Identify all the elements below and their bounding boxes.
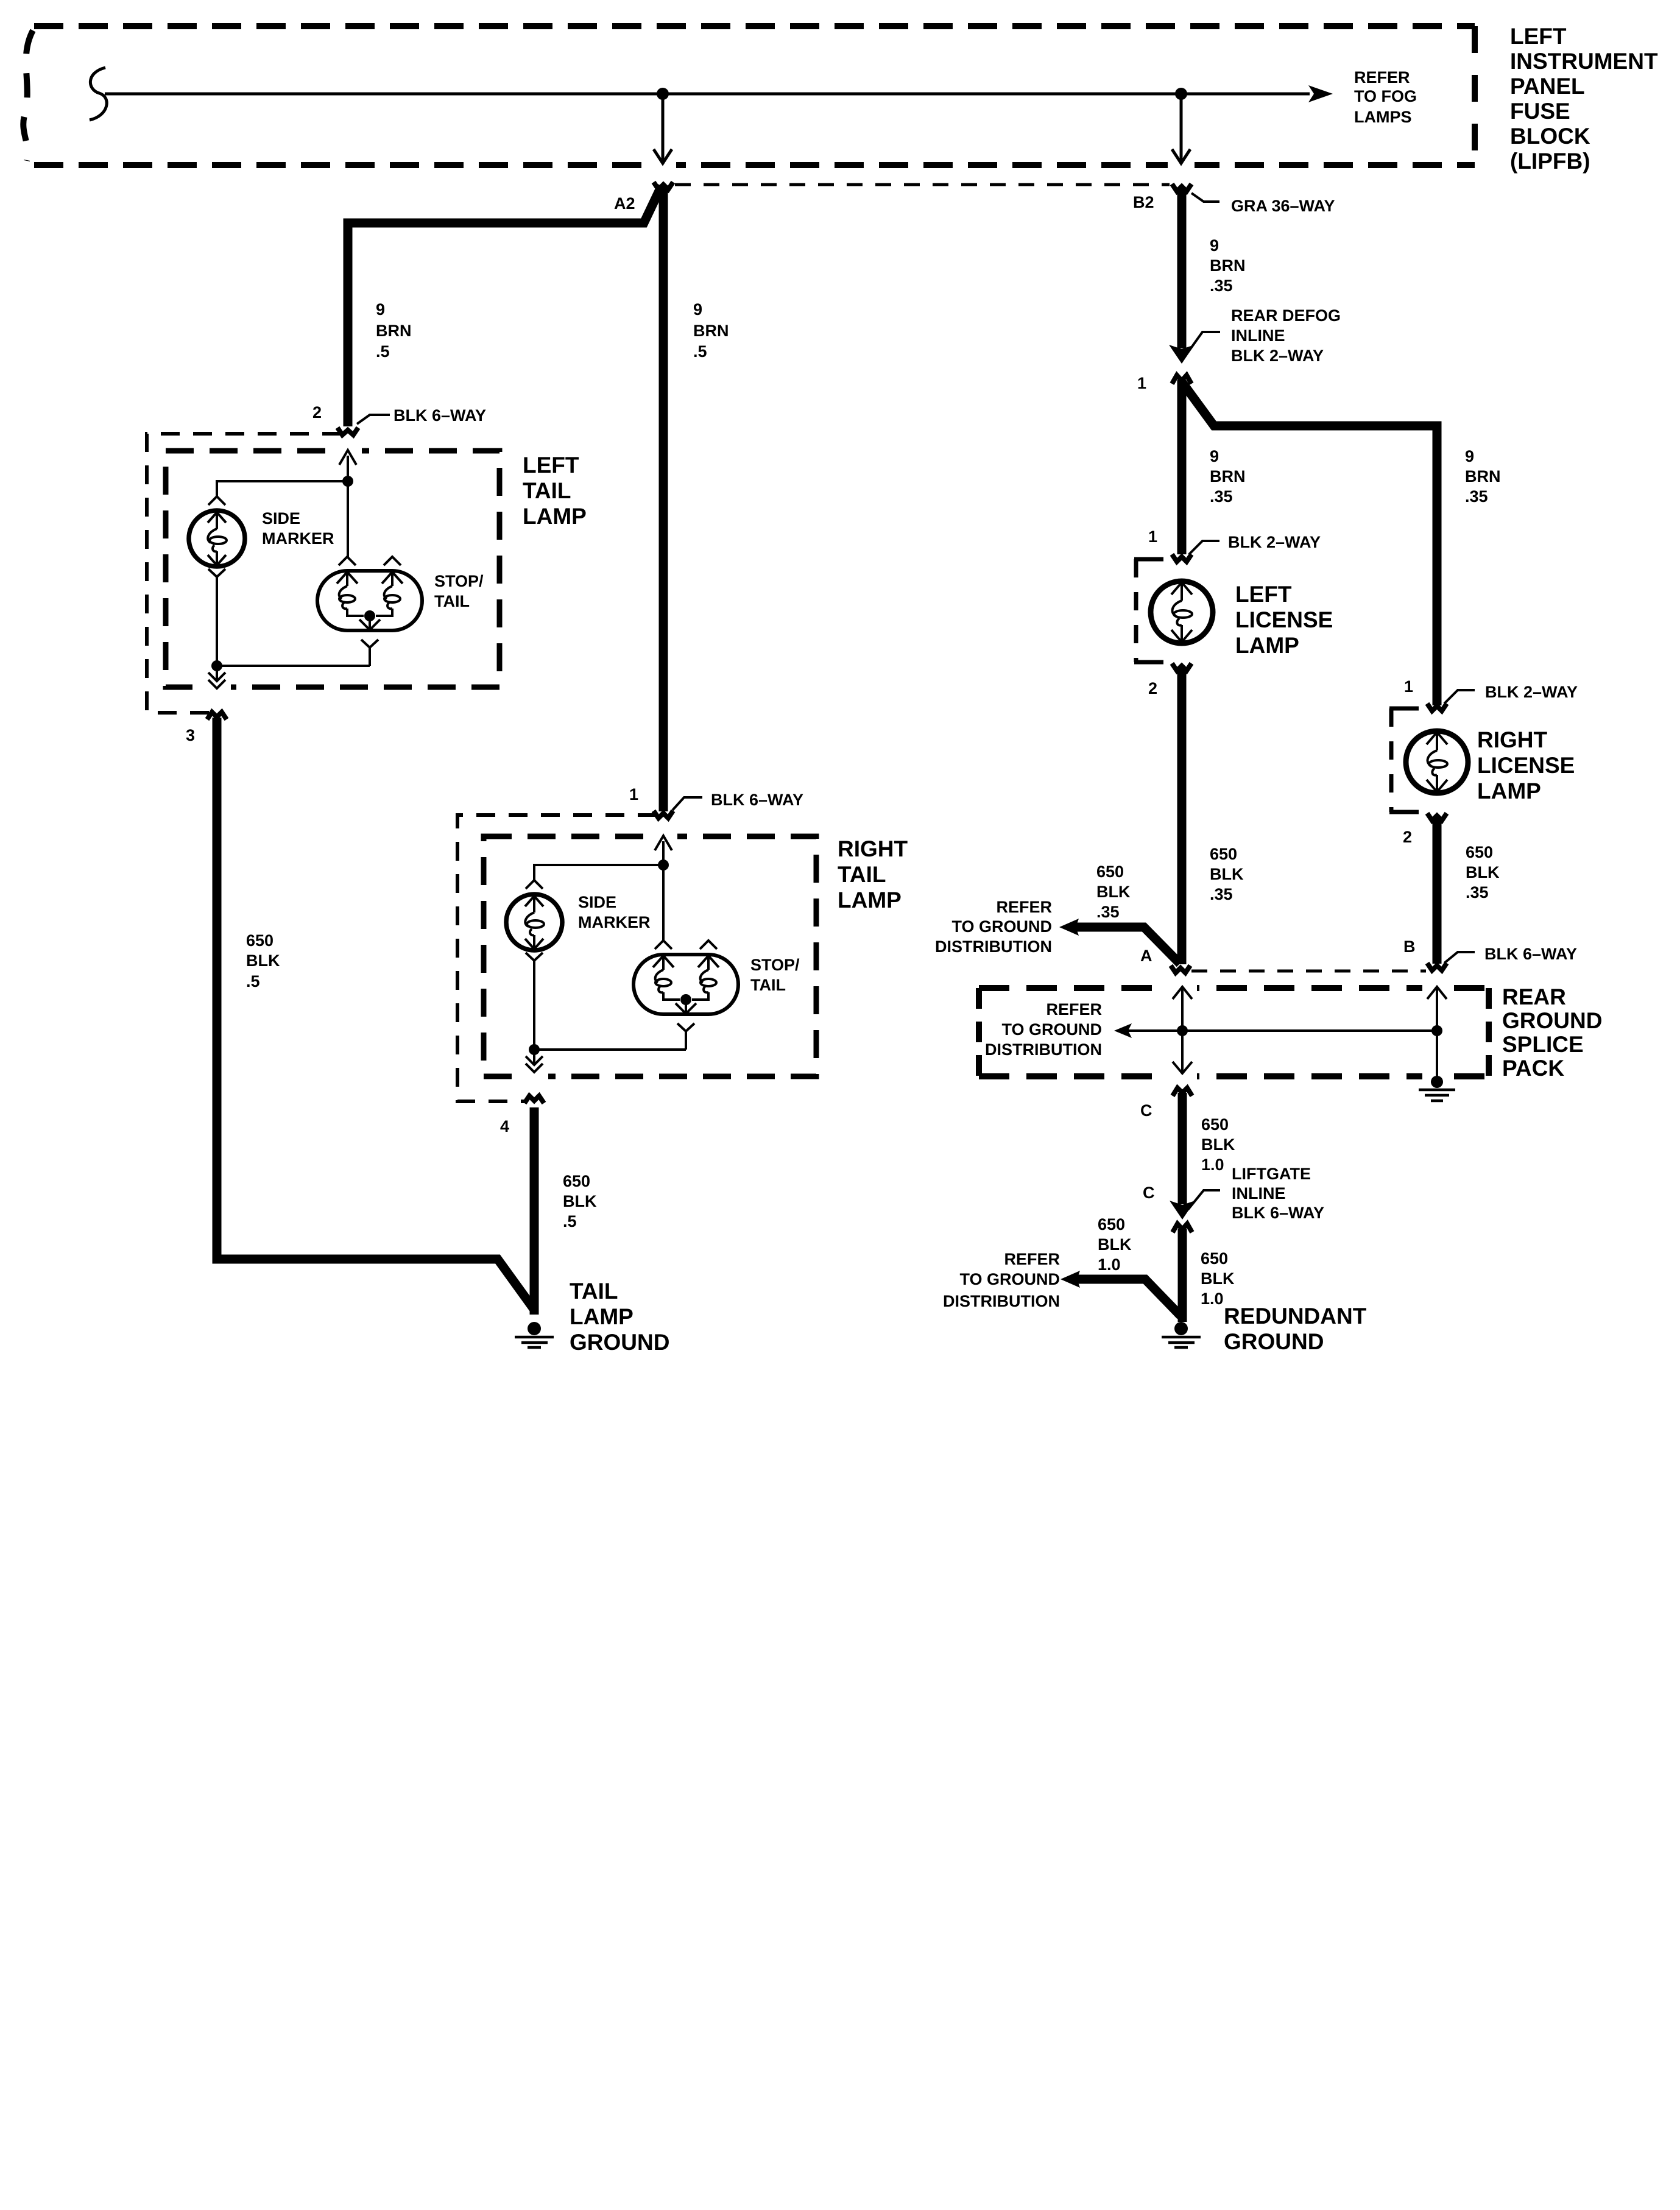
svg-text:9: 9 — [1465, 447, 1474, 465]
svg-text:LICENSE: LICENSE — [1477, 753, 1575, 778]
gap in box edge at B2 — [1168, 161, 1195, 169]
svg-text:TAIL: TAIL — [838, 862, 886, 887]
wire 9 BRN .5 from A2 down to right tail lamp — [659, 186, 668, 811]
arrowhead down at A2 — [654, 149, 672, 163]
wire 650 BLK .5 from pin 3 to ground — [217, 718, 534, 1310]
gap at exit arrow — [203, 683, 231, 691]
svg-text:LIFTGATE: LIFTGATE — [1232, 1165, 1311, 1183]
svg-text:BRN: BRN — [1210, 256, 1246, 275]
svg-text:BLK: BLK — [1096, 883, 1131, 901]
svg-text:.35: .35 — [1210, 487, 1233, 506]
svg-text:GROUND: GROUND — [1502, 1008, 1602, 1033]
bulb side marker lens — [210, 537, 227, 544]
bulb side marker filament — [208, 512, 226, 565]
fuse block box LIPFB bottom edge — [34, 162, 1475, 168]
svg-text:BLK: BLK — [1466, 863, 1500, 881]
bulb left license lamp — [1151, 581, 1213, 643]
svg-text:2: 2 — [1403, 828, 1412, 846]
svg-text:BLK 2–WAY: BLK 2–WAY — [1485, 683, 1578, 701]
leader line BLK 6-WAY — [357, 415, 390, 424]
connector BLK 6-WAY at right tail lamp — [654, 811, 673, 818]
svg-text:BLK: BLK — [1201, 1135, 1235, 1154]
svg-text:SIDE: SIDE — [578, 893, 616, 911]
connector pin 3 — [207, 712, 227, 719]
stop tail exit chevron right lamp — [677, 1023, 694, 1031]
bulb left license filament — [1171, 582, 1192, 642]
stop tail right filament — [376, 572, 403, 616]
leader line BLK 2-WAY right license — [1444, 690, 1475, 704]
stop tail filament junction node right lamp — [680, 994, 691, 1005]
wire junction to side marker right lamp — [534, 865, 663, 881]
svg-text:9: 9 — [1210, 236, 1219, 255]
side marker terminal chevron right lamp — [526, 880, 543, 889]
leader line rear defog inline — [1187, 332, 1220, 353]
svg-text:BRN: BRN — [1210, 467, 1246, 485]
svg-text:LEFT: LEFT — [1235, 582, 1292, 607]
svg-text:FUSE: FUSE — [1510, 99, 1570, 124]
svg-text:SPLICE: SPLICE — [1502, 1032, 1584, 1057]
svg-text:LAMP: LAMP — [523, 504, 587, 529]
wire 9 BRN .35 branch to right license lamp — [1182, 383, 1437, 705]
svg-text:9: 9 — [1210, 447, 1219, 465]
fuse block box LIPFB left wavy edge — [23, 30, 33, 161]
svg-text:TAIL: TAIL — [570, 1279, 618, 1304]
svg-text:TO FOG: TO FOG — [1354, 87, 1417, 105]
wire 650 BLK .5 from pin 4 to ground — [530, 1107, 539, 1315]
wire down to A2 — [662, 94, 665, 162]
svg-text:REFER: REFER — [996, 898, 1052, 916]
svg-text:B: B — [1403, 937, 1416, 956]
thick arrow to ground distribution upper — [1074, 927, 1180, 964]
svg-text:BLOCK: BLOCK — [1510, 124, 1590, 149]
stop tail left lens — [339, 595, 355, 602]
wire break squiggle — [90, 68, 107, 120]
junction node — [342, 476, 353, 487]
svg-text:(LIPFB): (LIPFB) — [1510, 149, 1590, 174]
svg-text:9: 9 — [376, 300, 385, 319]
svg-text:650: 650 — [1210, 845, 1237, 863]
svg-text:BRN: BRN — [693, 322, 729, 340]
stop tail left terminal chevron — [339, 557, 356, 565]
dashed connector line A to B — [1191, 970, 1426, 973]
svg-text:GROUND: GROUND — [570, 1330, 669, 1355]
bulb side marker circle right lamp — [506, 894, 562, 950]
wire stop tail exit — [369, 648, 371, 666]
svg-text:BRN: BRN — [1465, 467, 1501, 485]
svg-text:.35: .35 — [1096, 903, 1120, 921]
LEFTTAIL — [147, 434, 587, 744]
liftgate inline arrow — [1170, 1201, 1195, 1220]
entry arrow at inner box top right lamp — [655, 836, 672, 850]
svg-text:LICENSE: LICENSE — [1235, 607, 1333, 632]
svg-text:650: 650 — [246, 931, 274, 950]
svg-text:TAIL: TAIL — [434, 592, 470, 610]
stop tail right lens right lamp — [701, 979, 716, 986]
svg-text:.5: .5 — [376, 342, 390, 361]
svg-text:BLK 6–WAY: BLK 6–WAY — [1484, 945, 1577, 963]
svg-text:INLINE: INLINE — [1232, 1184, 1286, 1202]
left tail lamp inner dashed box — [166, 451, 499, 687]
svg-text:.35: .35 — [1465, 487, 1488, 506]
svg-text:BLK: BLK — [1201, 1269, 1235, 1288]
svg-text:REFER: REFER — [1004, 1250, 1060, 1268]
tail lamp ground symbol — [528, 1322, 541, 1335]
connector B2 GRA 36-WAY — [1172, 184, 1191, 191]
svg-text:BLK: BLK — [563, 1192, 597, 1210]
stop tail right terminal chevron — [384, 557, 401, 565]
svg-text:1: 1 — [629, 785, 638, 803]
LICENSE — [1134, 528, 1578, 964]
LEFTBRANCH — [312, 186, 729, 811]
wire 650 BLK .35 from right license to B — [1433, 817, 1442, 964]
svg-text:DISTRIBUTION: DISTRIBUTION — [985, 1040, 1102, 1059]
svg-text:A: A — [1140, 947, 1152, 965]
arrowhead down at B2 — [1172, 149, 1190, 163]
svg-text:REFER: REFER — [1046, 1000, 1102, 1019]
bulb side marker circle — [189, 510, 245, 567]
wire feed inside fuse block — [105, 93, 1310, 96]
svg-text:MARKER: MARKER — [578, 913, 651, 931]
left license lamp dashed bracket — [1134, 557, 1163, 562]
wire junction to side marker — [217, 481, 348, 497]
svg-text:.5: .5 — [246, 972, 260, 990]
wire 650 BLK 1.0 from C down — [1178, 1093, 1187, 1204]
svg-text:BRN: BRN — [376, 322, 412, 340]
right license lamp dashed bracket — [1389, 707, 1419, 711]
svg-text:.35: .35 — [1466, 883, 1489, 902]
dashed connector line A2 to B2 — [675, 183, 1170, 186]
fuse block box LIPFB right edge — [1472, 26, 1478, 165]
svg-text:REFER: REFER — [1354, 68, 1410, 86]
splice wire to ground — [1436, 1031, 1438, 1077]
gap at exit arrow right lamp — [520, 1072, 548, 1081]
splice bus line — [1127, 1029, 1437, 1032]
svg-text:.5: .5 — [693, 342, 707, 361]
svg-text:PACK: PACK — [1502, 1056, 1564, 1081]
svg-text:DISTRIBUTION: DISTRIBUTION — [943, 1292, 1060, 1310]
exit arrow at inner box bottom — [208, 666, 225, 688]
svg-text:1.0: 1.0 — [1201, 1156, 1224, 1174]
wire 650 BLK 1.0 to redundant ground — [1178, 1229, 1187, 1322]
right tail lamp inner dashed box — [484, 836, 816, 1076]
leader line GRA 36-WAY — [1191, 193, 1219, 202]
RIGHTTAIL — [457, 785, 908, 1135]
gap at entry arrow — [334, 447, 362, 455]
BOTTOM — [943, 1088, 1367, 1354]
fuse block box LIPFB top edge — [34, 23, 1475, 29]
leader line BLK 6-WAY right tail — [672, 797, 702, 810]
stop tail filament junction node — [364, 610, 375, 621]
svg-text:650: 650 — [1098, 1215, 1125, 1234]
svg-text:BLK: BLK — [246, 951, 280, 970]
svg-text:650: 650 — [1096, 863, 1124, 881]
junction node above A2 — [657, 88, 669, 100]
svg-text:1.0: 1.0 — [1201, 1290, 1224, 1308]
connector rear defog inline BLK 2-WAY — [1172, 375, 1191, 384]
svg-text:C: C — [1140, 1101, 1152, 1120]
side marker terminal chevron — [208, 496, 225, 505]
stop tail right lens — [384, 595, 400, 602]
connector BLK 6-WAY at left tail lamp — [337, 428, 358, 435]
svg-text:GRA 36–WAY: GRA 36–WAY — [1231, 197, 1335, 215]
svg-text:TO GROUND: TO GROUND — [959, 1270, 1060, 1288]
wire side marker to lower junction — [216, 577, 218, 666]
wire 9 BRN .35 down to left license lamp — [1177, 380, 1187, 554]
splice left arrowhead — [1114, 1023, 1132, 1038]
connector pin 2 left license — [1172, 663, 1191, 671]
svg-text:650: 650 — [1466, 843, 1493, 861]
splice arrow up right — [1427, 987, 1447, 1032]
right tail lamp outer dashed box — [457, 815, 657, 1101]
svg-text:TAIL: TAIL — [523, 478, 571, 503]
wire lower junction to stop tail — [217, 665, 370, 667]
connector C crown — [1173, 1088, 1192, 1096]
gaps at splice arrows — [1168, 984, 1197, 993]
bulb right license lamp — [1406, 731, 1468, 793]
stop tail exit chevron — [361, 640, 378, 648]
splice pack ground symbol — [1431, 1076, 1443, 1088]
wire 9 BRN .5 from A2 to left tail lamp — [348, 186, 662, 426]
svg-text:.5: .5 — [563, 1212, 577, 1230]
lower junction node — [211, 660, 222, 671]
stop tail left lens right lamp — [655, 979, 671, 986]
thick arrow to ground distribution lower — [1075, 1279, 1181, 1316]
svg-text:BLK 2–WAY: BLK 2–WAY — [1228, 533, 1321, 551]
wire junction to stop tail left right lamp — [662, 865, 665, 941]
svg-text:TAIL: TAIL — [750, 976, 786, 994]
stop tail internal down arrow right lamp — [676, 1000, 696, 1014]
rear ground splice pack dashed box — [979, 985, 1489, 991]
SPLICE — [935, 863, 1602, 1101]
svg-text:1.0: 1.0 — [1098, 1255, 1121, 1274]
svg-text:.35: .35 — [1210, 277, 1233, 295]
connector A2 GRA 36-WAY — [654, 182, 673, 189]
bulb stop tail oval — [317, 571, 422, 630]
svg-text:RIGHT: RIGHT — [838, 836, 908, 861]
svg-text:LAMP: LAMP — [1235, 633, 1299, 658]
svg-text:BLK: BLK — [1210, 865, 1244, 883]
svg-text:.35: .35 — [1210, 885, 1233, 903]
svg-text:LAMP: LAMP — [838, 888, 902, 913]
svg-text:BLK 6–WAY: BLK 6–WAY — [1232, 1204, 1324, 1222]
svg-text:LAMP: LAMP — [570, 1304, 634, 1329]
svg-text:LAMPS: LAMPS — [1354, 108, 1412, 126]
svg-text:TO GROUND: TO GROUND — [951, 917, 1052, 936]
svg-text:LAMP: LAMP — [1477, 778, 1541, 803]
TOPWIRE — [90, 68, 1417, 215]
splice junction node left — [1177, 1025, 1188, 1036]
arrowhead ground distribution lower — [1061, 1271, 1080, 1288]
arrowhead ground distribution upper — [1059, 919, 1079, 936]
left tail lamp outer dashed box — [147, 434, 341, 713]
svg-text:BLK: BLK — [1098, 1235, 1132, 1254]
wire side marker to lower junction right lamp — [533, 961, 535, 1050]
junction node above B2 — [1175, 88, 1187, 100]
svg-text:INSTRUMENT: INSTRUMENT — [1510, 49, 1658, 74]
bulb right license lens — [1429, 760, 1447, 768]
stop tail right filament right lamp — [692, 956, 719, 1000]
wire down to B2 — [1180, 94, 1183, 162]
svg-text:2: 2 — [312, 403, 322, 422]
RIGHTCOL — [1137, 188, 1501, 705]
connector BLK 2-WAY right license — [1427, 704, 1447, 711]
svg-text:1: 1 — [1404, 677, 1413, 696]
bulb side marker filament right lamp — [525, 896, 543, 949]
bulb left license lens — [1174, 610, 1192, 618]
svg-text:INLINE: INLINE — [1231, 327, 1285, 345]
connector pin 2 right license — [1427, 813, 1447, 821]
svg-text:1: 1 — [1148, 528, 1157, 546]
leader line BLK 6-WAY at B — [1444, 952, 1475, 963]
svg-text:650: 650 — [1201, 1115, 1229, 1134]
leader line liftgate inline — [1188, 1190, 1220, 1210]
leader line BLK 2-WAY left license — [1189, 541, 1219, 554]
svg-text:1: 1 — [1137, 374, 1146, 392]
gap in box edge at A2 — [649, 161, 676, 169]
svg-text:650: 650 — [563, 1172, 590, 1190]
splice junction node right — [1431, 1025, 1442, 1036]
svg-text:650: 650 — [1201, 1249, 1228, 1268]
inline arrow rear defog — [1169, 345, 1195, 364]
arrow to fog lamps — [1308, 85, 1333, 102]
wire lower junction to stop tail right lamp — [534, 1048, 686, 1051]
wire to junction right lamp — [662, 841, 665, 865]
svg-text:B2: B2 — [1133, 193, 1154, 211]
stop tail left filament right lamp — [653, 956, 680, 1000]
bulb stop tail oval right lamp — [634, 955, 738, 1014]
svg-text:C: C — [1143, 1184, 1155, 1202]
svg-text:BLK 2–WAY: BLK 2–WAY — [1231, 347, 1324, 365]
svg-text:DISTRIBUTION: DISTRIBUTION — [935, 937, 1052, 956]
svg-text:TO GROUND: TO GROUND — [1001, 1020, 1102, 1039]
svg-text:BLK 6–WAY: BLK 6–WAY — [394, 406, 486, 425]
svg-text:GROUND: GROUND — [1224, 1329, 1324, 1354]
svg-text:9: 9 — [693, 300, 702, 319]
connector pin 4 — [524, 1096, 544, 1103]
entry arrow at inner box top — [339, 450, 356, 465]
stop tail right terminal chevron right lamp — [700, 941, 717, 949]
wire junction to stop tail left — [347, 481, 349, 557]
svg-text:LEFT: LEFT — [523, 453, 579, 478]
svg-text:BLK 6–WAY: BLK 6–WAY — [711, 791, 803, 809]
svg-text:REAR DEFOG: REAR DEFOG — [1231, 306, 1341, 325]
svg-text:REDUNDANT: REDUNDANT — [1224, 1304, 1367, 1329]
svg-text:STOP/: STOP/ — [434, 572, 484, 590]
side marker lower terminal chevron right lamp — [526, 953, 543, 961]
svg-text:A2: A2 — [614, 194, 635, 213]
redundant ground symbol — [1174, 1322, 1188, 1335]
lower junction node right lamp — [529, 1044, 540, 1055]
svg-text:3: 3 — [186, 726, 195, 744]
wire 650 BLK .35 from left license to A — [1177, 668, 1187, 964]
splice arrow up left — [1173, 987, 1192, 1032]
wire 9 BRN .35 from B2 down — [1177, 188, 1187, 348]
svg-text:2: 2 — [1148, 679, 1157, 697]
bulb right license filament — [1427, 732, 1447, 792]
connector A — [1171, 966, 1190, 973]
wire stop tail exit right lamp — [685, 1031, 687, 1050]
connector B — [1427, 963, 1447, 970]
bulb side marker lens right lamp — [527, 920, 544, 928]
svg-text:RIGHT: RIGHT — [1477, 727, 1548, 752]
svg-text:MARKER: MARKER — [262, 529, 334, 548]
svg-text:SIDE: SIDE — [262, 509, 300, 528]
side marker lower terminal chevron — [208, 569, 225, 577]
stop tail internal down arrow — [359, 616, 380, 630]
splice arrow down left — [1173, 1031, 1192, 1073]
LEFTGROUNDWIRE — [217, 718, 669, 1355]
connector liftgate inline BLK 6-WAY — [1173, 1224, 1192, 1232]
stop tail left terminal chevron right lamp — [655, 941, 672, 949]
wire to junction — [347, 456, 349, 481]
svg-text:REAR: REAR — [1502, 984, 1566, 1009]
svg-text:PANEL: PANEL — [1510, 74, 1585, 99]
exit arrow at inner box bottom right lamp — [526, 1050, 543, 1072]
stop tail left filament — [337, 572, 364, 616]
svg-text:LEFT: LEFT — [1510, 24, 1567, 49]
connector BLK 2-WAY left license — [1172, 554, 1191, 562]
junction node right lamp — [658, 860, 669, 870]
svg-text:STOP/: STOP/ — [750, 956, 800, 974]
svg-text:4: 4 — [500, 1117, 509, 1135]
TOPBOX — [23, 24, 1658, 174]
gap at entry arrow right lamp — [649, 832, 677, 841]
